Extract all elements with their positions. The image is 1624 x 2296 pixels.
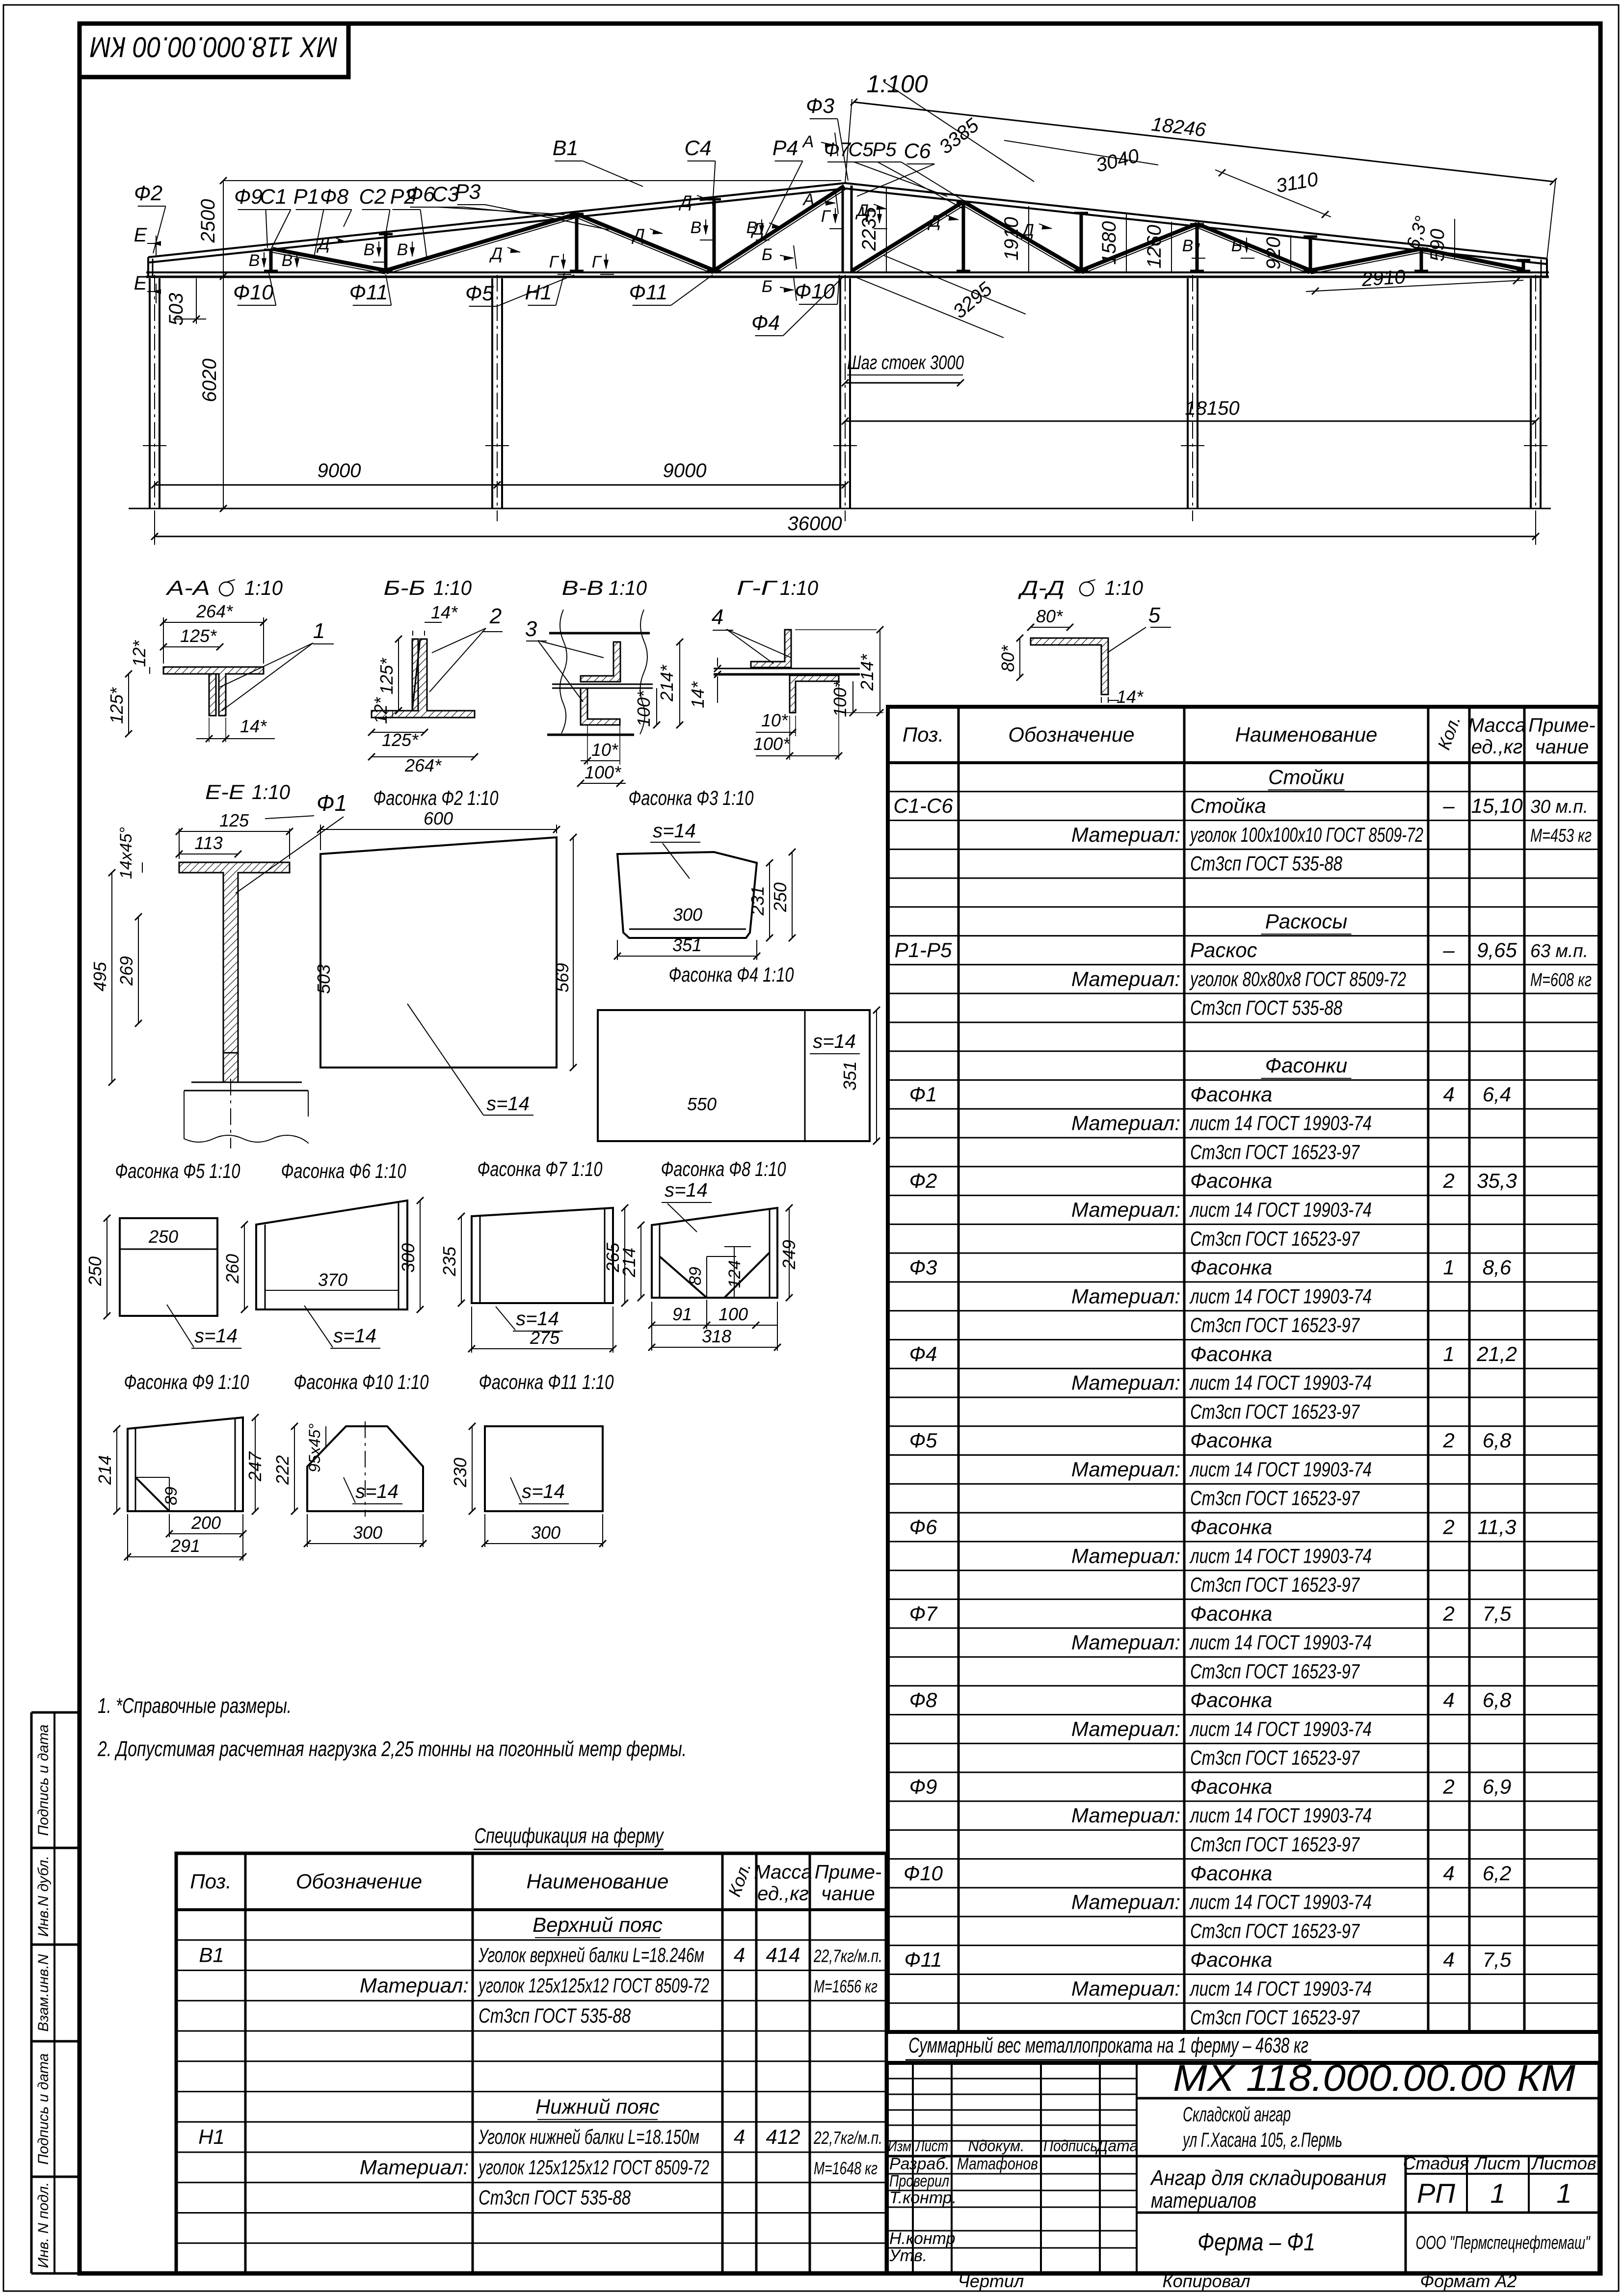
svg-text:материалов: материалов (1151, 2189, 1256, 2213)
svg-text:Подпись и дата: Подпись и дата (35, 2054, 52, 2165)
svg-text:Фасонка Ф3 1:10: Фасонка Ф3 1:10 (629, 786, 754, 809)
svg-text:Б: Б (762, 277, 772, 296)
svg-text:Фасонка: Фасонка (1190, 1775, 1272, 1798)
truss vertical post C5 x=1963 (962, 203, 965, 272)
svg-text:1:100: 1:100 (866, 70, 928, 98)
svg-text:чание: чание (1535, 736, 1589, 758)
svg-text:лист 14 ГОСТ 19903-74: лист 14 ГОСТ 19903-74 (1189, 1544, 1372, 1567)
truss diagonal d (1197, 224, 1310, 270)
svg-text:s=14: s=14 (516, 1308, 559, 1330)
building column x=1013 (491, 278, 493, 508)
truss diagonal P1 (272, 249, 386, 270)
svg-text:Утв.: Утв. (889, 2246, 927, 2265)
section V-V profile: gusset plate with two angles (549, 632, 650, 635)
svg-text:230: 230 (450, 1458, 470, 1488)
svg-text:250: 250 (770, 882, 790, 912)
svg-text:Ф10: Ф10 (233, 281, 273, 304)
svg-text:Ст3сп ГОСТ 16523-97: Ст3сп ГОСТ 16523-97 (1190, 1227, 1360, 1250)
svg-text:214*: 214* (857, 654, 877, 691)
svg-text:ул Г.Хасана 105, г.Пермь: ул Г.Хасана 105, г.Пермь (1182, 2128, 1342, 2151)
svg-text:Лист: Лист (1474, 2153, 1521, 2173)
F9 dims 200 291 (169, 1533, 243, 1534)
svg-text:Фасонка Ф7 1:10: Фасонка Ф7 1:10 (478, 1157, 603, 1180)
truss vertical post C4 x=1455 (713, 199, 716, 272)
svg-text:С4: С4 (685, 136, 712, 160)
svg-text:Материал:: Материал: (1071, 967, 1180, 990)
svg-text:уголок 100х100х10 ГОСТ 8509-72: уголок 100х100х10 ГОСТ 8509-72 (1189, 823, 1423, 846)
svg-text:Фасонка Ф5 1:10: Фасонка Ф5 1:10 (115, 1159, 240, 1182)
A-A dim 14* (209, 718, 210, 742)
svg-text:Д: Д (678, 192, 692, 211)
svg-text:Ф4: Ф4 (909, 1342, 937, 1365)
svg-text:100*: 100* (753, 734, 790, 754)
truss diagonal P3 (577, 214, 714, 270)
svg-text:лист 14 ГОСТ 19903-74: лист 14 ГОСТ 19903-74 (1189, 1631, 1372, 1654)
svg-text:11,3: 11,3 (1478, 1515, 1517, 1538)
svg-text:124: 124 (725, 1260, 744, 1288)
svg-text:113: 113 (194, 833, 222, 853)
svg-text:Г-Г: Г-Г (737, 576, 778, 599)
svg-text:2910: 2910 (1360, 266, 1406, 291)
svg-text:14*: 14* (240, 716, 267, 736)
svg-text:Нижний пояс: Нижний пояс (535, 2095, 660, 2118)
svg-text:495: 495 (90, 961, 110, 991)
svg-text:80*: 80* (998, 645, 1018, 672)
svg-text:Р3: Р3 (455, 180, 481, 204)
svg-text:Материал:: Материал: (1071, 1371, 1180, 1394)
gusset F9 plate (128, 1417, 243, 1511)
svg-text:30 м.п.: 30 м.п. (1530, 797, 1588, 817)
svg-text:Г: Г (549, 253, 559, 271)
svg-text:291: 291 (170, 1536, 200, 1556)
F11 dim 230 (472, 1426, 473, 1511)
svg-text:А-А: А-А (165, 576, 210, 599)
svg-text:Верхний пояс: Верхний пояс (532, 1913, 663, 1936)
svg-text:С2: С2 (359, 185, 386, 209)
svg-text:Е: Е (134, 224, 148, 246)
B-B dim 14* top (412, 631, 413, 636)
svg-text:Поз.: Поз. (903, 723, 944, 746)
svg-text:Обозначение: Обозначение (1008, 723, 1134, 746)
row line izm (887, 2155, 1599, 2158)
svg-text:1. *Справочные размеры.: 1. *Справочные размеры. (98, 1694, 292, 1718)
svg-text:Д: Д (927, 212, 941, 231)
truss right end post (1541, 260, 1542, 277)
svg-text:264*: 264* (196, 601, 233, 621)
building column x=1722 (839, 278, 841, 508)
svg-text:Фасонка: Фасонка (1190, 1862, 1272, 1885)
svg-text:235: 235 (439, 1246, 459, 1277)
svg-text:Е-Е: Е-Е (205, 780, 245, 803)
F9 interior cut (135, 1477, 169, 1511)
F8 dim 249 (789, 1208, 790, 1298)
left rows (887, 2173, 1137, 2175)
svg-text:Фасонки: Фасонки (1265, 1054, 1347, 1077)
svg-text:лист 14 ГОСТ 19903-74: лист 14 ГОСТ 19903-74 (1189, 1284, 1372, 1308)
svg-text:8,6: 8,6 (1483, 1256, 1512, 1279)
E-E column profile (179, 862, 290, 1053)
truss diagonal d (1421, 249, 1523, 269)
svg-text:Д: Д (631, 226, 645, 244)
svg-text:Ф7: Ф7 (824, 139, 852, 160)
G-G dim 100* (852, 681, 853, 713)
svg-text:МХ 118.000.00.00 КМ: МХ 118.000.00.00 КМ (90, 31, 338, 63)
svg-text:4: 4 (1443, 1083, 1454, 1106)
svg-text:22,7кг/м.п.: 22,7кг/м.п. (813, 2128, 882, 2148)
svg-text:Ф1: Ф1 (317, 790, 347, 816)
svg-text:Приме-: Приме- (815, 1862, 881, 1883)
svg-text:Инв. N подл.: Инв. N подл. (35, 2182, 52, 2268)
svg-text:Масса: Масса (754, 1862, 812, 1883)
svg-text:Материал:: Материал: (1071, 1631, 1180, 1654)
truss vertical post C1 x=552 (269, 250, 273, 272)
svg-text:247: 247 (245, 1451, 265, 1482)
right spec table frame (888, 707, 1599, 2032)
svg-text:Ф11: Ф11 (629, 281, 668, 304)
svg-text:Копировал: Копировал (1162, 2271, 1250, 2291)
MX cell bottom (1137, 2097, 1599, 2100)
svg-text:1:10: 1:10 (244, 576, 283, 599)
D-D dim 14* (1101, 697, 1102, 703)
svg-text:125: 125 (219, 810, 249, 830)
svg-text:370: 370 (318, 1270, 347, 1290)
svg-text:–: – (1442, 794, 1455, 817)
svg-text:4: 4 (1443, 1862, 1454, 1885)
A-A dim 125* (163, 646, 220, 647)
svg-text:Р5: Р5 (873, 139, 897, 160)
svg-text:249: 249 (779, 1240, 799, 1270)
svg-text:1:10: 1:10 (780, 576, 819, 599)
svg-text:Взам.инв.N: Взам.инв.N (35, 1954, 52, 2031)
svg-text:В: В (397, 240, 408, 259)
F9 dim 89 (169, 1477, 170, 1511)
svg-text:В: В (691, 218, 702, 237)
margin box Подпись и дата (31, 2040, 80, 2043)
svg-text:Ст3сп ГОСТ 535-88: Ст3сп ГОСТ 535-88 (479, 2004, 631, 2027)
svg-text:Изм: Изм (888, 2138, 911, 2155)
svg-text:РП: РП (1417, 2178, 1455, 2209)
svg-text:Д-Д: Д-Д (1018, 576, 1065, 599)
svg-text:В: В (249, 251, 260, 270)
dimension 18246 along top chord (854, 102, 1553, 182)
svg-text:1:10: 1:10 (433, 576, 472, 599)
svg-text:С6: С6 (904, 139, 931, 163)
svg-text:2500: 2500 (197, 199, 219, 243)
F7 dim 275 (472, 1348, 613, 1349)
svg-text:414: 414 (766, 1944, 800, 1967)
svg-text:Ст3сп ГОСТ 16523-97: Ст3сп ГОСТ 16523-97 (1190, 1400, 1360, 1423)
svg-text:125*: 125* (382, 730, 419, 750)
svg-text:B1: B1 (553, 136, 579, 160)
D-D dim 80* top (1031, 627, 1070, 628)
svg-text:125*: 125* (180, 626, 217, 646)
V-V dim 214* (679, 642, 680, 725)
svg-text:Р1-Р5: Р1-Р5 (895, 938, 952, 961)
svg-text:Материал:: Материал: (1071, 1544, 1180, 1567)
svg-text:s=14: s=14 (813, 1031, 856, 1052)
svg-text:Материал:: Материал: (1071, 823, 1180, 846)
svg-text:Ст3сп ГОСТ 535-88: Ст3сп ГОСТ 535-88 (1190, 852, 1342, 875)
svg-text:18150: 18150 (1185, 398, 1239, 419)
svg-text:231: 231 (747, 886, 768, 916)
F8 dims 89 124 (706, 1256, 707, 1298)
svg-text:1:10: 1:10 (1105, 576, 1144, 599)
svg-text:222: 222 (272, 1455, 293, 1485)
stadia header bottom (1406, 2173, 1599, 2175)
svg-text:ед.,кг: ед.,кг (1471, 736, 1523, 758)
svg-text:лист 14 ГОСТ 19903-74: лист 14 ГОСТ 19903-74 (1189, 1112, 1372, 1135)
dimension 503 (196, 278, 197, 324)
dimension 2910 (1306, 280, 1523, 292)
svg-text:В: В (1182, 237, 1194, 255)
ridge post pair C6 (842, 186, 844, 273)
section G-G profile: gusset plate with upper and lower angles (751, 630, 791, 667)
svg-text:Ф1: Ф1 (909, 1083, 937, 1106)
left spec table frame (176, 1853, 886, 2273)
vertical: stadia cells (1405, 2156, 1407, 2273)
svg-text:214*: 214* (657, 665, 677, 702)
svg-text:2: 2 (489, 604, 502, 628)
svg-text:Стойка: Стойка (1190, 794, 1266, 817)
svg-text:В: В (282, 251, 293, 270)
svg-text:4: 4 (1443, 1948, 1454, 1971)
svg-text:2: 2 (1442, 1429, 1454, 1452)
dimension 3295 oblique (853, 276, 1004, 338)
svg-text:Ф2: Ф2 (909, 1169, 937, 1192)
dimension 2500 height (223, 181, 224, 276)
svg-text:уголок 125х125х12 ГОСТ 8509-72: уголок 125х125х12 ГОСТ 8509-72 (478, 1974, 709, 1997)
title block rows upper-left (887, 2078, 1137, 2080)
svg-text:550: 550 (687, 1094, 717, 1114)
section A-A profile (163, 667, 264, 716)
svg-text:Ст3сп ГОСТ 16523-97: Ст3сп ГОСТ 16523-97 (1190, 1487, 1360, 1510)
ground line (129, 508, 1551, 509)
svg-text:1:10: 1:10 (609, 576, 647, 599)
F5 dim 250 left (106, 1218, 107, 1316)
truss diagonal P2 (386, 214, 577, 270)
truss diagonal d (1310, 249, 1421, 270)
svg-text:Раскос: Раскос (1190, 938, 1257, 961)
svg-text:6,2: 6,2 (1483, 1862, 1511, 1885)
svg-text:s=14: s=14 (355, 1481, 399, 1502)
F4 dim 550 (598, 1115, 805, 1116)
svg-text:лист 14 ГОСТ 19903-74: лист 14 ГОСТ 19903-74 (1189, 1977, 1372, 2000)
svg-text:Наименование: Наименование (527, 1870, 669, 1893)
truss vertical post s x=3104 (1522, 260, 1525, 272)
gusset F3 plate (617, 852, 757, 938)
truss diagonal P4 (714, 186, 844, 270)
building column x=2430 (1187, 278, 1189, 508)
F9 dim 214 (116, 1429, 117, 1511)
svg-text:1260: 1260 (1144, 225, 1165, 268)
gusset F4 plate (598, 1010, 870, 1141)
svg-text:14*: 14* (431, 602, 458, 622)
svg-text:Фасонка Ф10 1:10: Фасонка Ф10 1:10 (294, 1370, 429, 1393)
svg-text:Ф8: Ф8 (320, 185, 348, 209)
svg-text:Б: Б (762, 245, 772, 264)
truss vertical post s x=2439 (1196, 224, 1199, 272)
svg-text:лист 14 ГОСТ 19903-74: лист 14 ГОСТ 19903-74 (1189, 1891, 1372, 1914)
F2 dim 503 (329, 856, 330, 1065)
svg-text:Материал:: Материал: (1071, 1717, 1180, 1740)
svg-text:Формат А2: Формат А2 (1420, 2271, 1517, 2291)
svg-text:лист 14 ГОСТ 19903-74: лист 14 ГОСТ 19903-74 (1189, 1717, 1372, 1740)
F7 dim 265 (624, 1208, 625, 1303)
bottom band top (1137, 2212, 1599, 2214)
gusset F2 plate (320, 837, 557, 1068)
svg-text:s=14: s=14 (194, 1325, 238, 1347)
svg-text:Ф7: Ф7 (909, 1602, 938, 1625)
svg-text:Ф11: Ф11 (349, 281, 388, 304)
svg-text:4: 4 (712, 605, 723, 629)
svg-text:6,8: 6,8 (1483, 1429, 1512, 1452)
F10 dim 300 (307, 1543, 423, 1544)
svg-text:Фасонка: Фасонка (1190, 1256, 1272, 1279)
svg-text:214: 214 (619, 1248, 639, 1278)
F8 dim 214 (640, 1225, 641, 1298)
truss bottom chord H1 (double line) (146, 271, 1549, 273)
svg-text:Фасонка Ф9 1:10: Фасонка Ф9 1:10 (124, 1370, 249, 1393)
gusset F5 plate (120, 1218, 217, 1316)
svg-text:Фасонка: Фасонка (1190, 1602, 1272, 1625)
svg-text:100*: 100* (585, 762, 621, 782)
G-G dim 214* (879, 630, 880, 713)
F9 dim 247 (255, 1417, 256, 1511)
F3 dim 351 (617, 956, 757, 957)
svg-text:лист 14 ГОСТ 19903-74: лист 14 ГОСТ 19903-74 (1189, 1458, 1372, 1481)
svg-text:4: 4 (1443, 1688, 1454, 1711)
truss diagonal P5b (963, 202, 1081, 270)
svg-text:Р4: Р4 (772, 136, 799, 160)
svg-text:Материал:: Материал: (1071, 1891, 1180, 1914)
svg-text:2: 2 (1442, 1602, 1454, 1625)
svg-text:А: А (802, 133, 814, 151)
svg-text:9000: 9000 (663, 460, 707, 481)
svg-text:s=14: s=14 (653, 820, 696, 842)
svg-text:Уголок верхней балки L=18.246м: Уголок верхней балки L=18.246м (478, 1944, 704, 1967)
svg-text:100*: 100* (634, 690, 654, 727)
svg-text:Материал:: Материал: (1071, 1284, 1180, 1308)
margin box Инв.N дубл. (31, 1847, 80, 1849)
truss diagonal d (1081, 224, 1197, 270)
svg-text:ООО "Пермспецнефтемаш": ООО "Пермспецнефтемаш" (1416, 2233, 1591, 2253)
truss top chord B1 left slope (double line) (148, 183, 845, 257)
svg-text:Стойки: Стойки (1268, 765, 1344, 788)
dimension 6020 (223, 276, 224, 508)
F6 dim 300 (420, 1201, 421, 1309)
svg-text:100*: 100* (830, 680, 850, 717)
F8 dims 91 100 318 (652, 1325, 777, 1326)
section D-D profile (1031, 638, 1108, 694)
svg-text:М=608 кг: М=608 кг (1530, 970, 1592, 990)
A-A dim 125* vert (128, 674, 129, 734)
svg-text:10*: 10* (591, 740, 618, 760)
svg-text:10*: 10* (761, 710, 788, 730)
svg-text:89: 89 (162, 1487, 181, 1505)
gusset F6 plate (256, 1201, 407, 1309)
svg-text:503: 503 (314, 964, 334, 994)
svg-text:чание: чание (821, 1883, 875, 1905)
svg-text:Фасонка: Фасонка (1190, 1429, 1272, 1452)
svg-text:Н1: Н1 (198, 2125, 225, 2148)
title block vertical lines left part (912, 2063, 914, 2273)
svg-text:7,5: 7,5 (1483, 1602, 1512, 1625)
F3 dim 250 (792, 852, 793, 938)
svg-text:Материал:: Материал: (360, 2156, 469, 2179)
svg-text:Д: Д (489, 244, 503, 263)
svg-text:80*: 80* (1036, 606, 1063, 626)
svg-text:12*: 12* (129, 640, 149, 667)
svg-text:412: 412 (766, 2125, 800, 2148)
svg-text:Фасонка: Фасонка (1190, 1342, 1272, 1365)
svg-text:6,9: 6,9 (1483, 1775, 1511, 1798)
svg-text:Ф4: Ф4 (751, 311, 780, 335)
svg-text:Е: Е (134, 272, 148, 294)
svg-text:А: А (802, 190, 815, 209)
svg-text:2. Допустимая расчетная нагру: 2. Допустимая расчетная нагрузка 2,25 то… (97, 1737, 687, 1761)
F11 dim 300 (485, 1543, 603, 1544)
left margin column boxes (30, 1712, 33, 2273)
svg-text:318: 318 (702, 1326, 731, 1346)
E-E dim 269 (138, 917, 139, 1023)
svg-text:200: 200 (191, 1513, 221, 1533)
svg-text:Фасонка: Фасонка (1190, 1083, 1272, 1106)
svg-text:Фасонка: Фасонка (1190, 1169, 1272, 1192)
F8 interior cuts (660, 1256, 707, 1298)
E-E base plate (191, 1082, 302, 1083)
truss vertical post s x=2670 (1309, 237, 1312, 272)
svg-text:Раскосы: Раскосы (1265, 909, 1348, 933)
svg-text:Материал:: Материал: (360, 1974, 469, 1997)
svg-text:4: 4 (734, 2125, 745, 2148)
svg-text:1: 1 (313, 619, 325, 643)
svg-text:s=14: s=14 (665, 1179, 708, 1201)
svg-text:1910: 1910 (1001, 217, 1022, 261)
svg-text:569: 569 (552, 963, 572, 992)
svg-text:Н1: Н1 (525, 281, 552, 304)
margin box Взам.инв.N (31, 1944, 80, 1946)
svg-text:2: 2 (1442, 1775, 1454, 1798)
svg-text:Ф8: Ф8 (909, 1688, 937, 1711)
F10 dim 222 (294, 1426, 295, 1511)
svg-text:М=1656 кг: М=1656 кг (814, 1976, 878, 1996)
svg-text:Д: Д (855, 201, 869, 220)
svg-text:Фасонка Ф6 1:10: Фасонка Ф6 1:10 (281, 1159, 406, 1182)
svg-text:Подпись и дата: Подпись и дата (35, 1725, 52, 1836)
svg-text:Д: Д (316, 235, 330, 253)
svg-text:В: В (1231, 237, 1243, 255)
svg-text:Г: Г (821, 207, 831, 226)
svg-text:15,10: 15,10 (1471, 794, 1523, 817)
svg-text:Ф2: Ф2 (134, 182, 162, 205)
truss vertical post s x=2203 (1080, 213, 1083, 272)
svg-text:100: 100 (719, 1304, 748, 1324)
svg-text:В: В (364, 240, 375, 259)
svg-text:уголок 125х125х12 ГОСТ 8509-72: уголок 125х125х12 ГОСТ 8509-72 (478, 2156, 709, 2179)
top-left stamp box (80, 24, 348, 77)
A-A dim 264* (163, 622, 264, 623)
svg-text:Nдокум.: Nдокум. (968, 2137, 1025, 2155)
dimension step of posts 3000 (845, 382, 960, 384)
svg-text:Листов: Листов (1531, 2153, 1596, 2173)
svg-text:6,4: 6,4 (1483, 1083, 1511, 1106)
svg-text:Материал:: Материал: (1071, 1804, 1180, 1827)
height dimension 1580 (1126, 214, 1127, 271)
dimension 9000 (bay 2) (497, 484, 845, 486)
svg-text:1: 1 (1443, 1256, 1454, 1279)
svg-text:–: – (1442, 938, 1455, 961)
E-E dim 125 (179, 834, 290, 835)
